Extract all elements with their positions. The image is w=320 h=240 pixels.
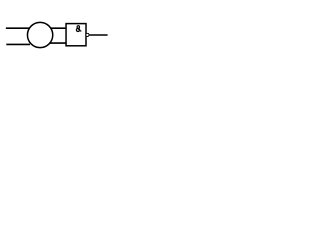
wire circle to gate bottom: [50, 42, 67, 44]
mixer circle: [27, 22, 52, 47]
wire circle to gate top: [50, 27, 67, 29]
wire output: [89, 34, 107, 36]
inverter bubble: [86, 33, 89, 36]
wire input bottom-left: [6, 43, 30, 45]
AND gate U1 body: [66, 24, 86, 46]
AND gate label ampersand: [76, 26, 81, 32]
wire input top-left: [6, 27, 31, 29]
